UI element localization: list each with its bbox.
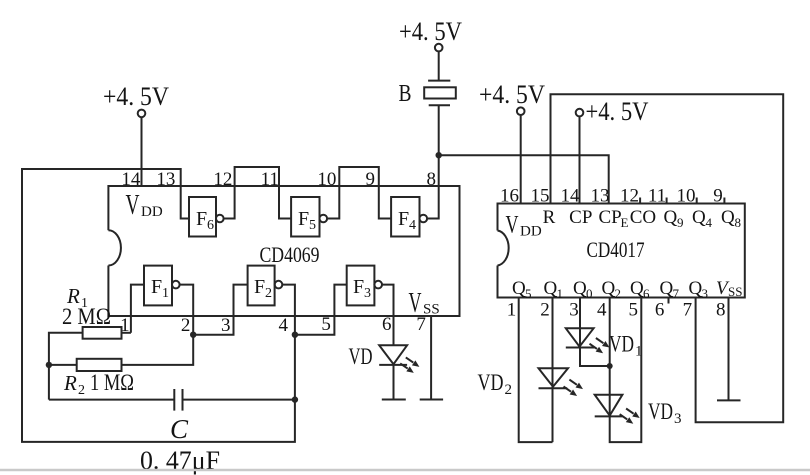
- wire C right: [183, 399, 295, 401]
- wire Q2 pin4 down through VD3: [610, 298, 642, 443]
- wire reset loop R pin15 to Q3 pin7: [551, 94, 784, 422]
- svg-text:V: V: [506, 211, 519, 238]
- svg-text:Q: Q: [664, 207, 678, 228]
- svg-text:5: 5: [629, 300, 639, 321]
- svg-text:12: 12: [213, 169, 232, 190]
- node buzzer junction: [436, 152, 442, 158]
- svg-text:6: 6: [207, 218, 214, 233]
- wire pin9 to F4 in: [379, 186, 391, 219]
- svg-text:11: 11: [261, 169, 279, 190]
- svg-text:14: 14: [561, 186, 581, 207]
- svg-text:3: 3: [569, 300, 579, 321]
- svg-text:16: 16: [500, 186, 519, 207]
- svg-text:5: 5: [321, 314, 331, 335]
- wire +4.5V to U2 pin16: [520, 115, 522, 204]
- wire pin7 to ground: [430, 316, 432, 400]
- svg-text:2: 2: [265, 286, 272, 301]
- svg-text:Q: Q: [573, 278, 587, 299]
- wire VD cathode to ground: [393, 365, 395, 400]
- wire terminal to buzzer: [438, 51, 440, 80]
- svg-text:10: 10: [317, 169, 336, 190]
- wire buzzer to junction: [438, 105, 440, 155]
- svg-text:7: 7: [416, 314, 426, 335]
- svg-text:VD: VD: [478, 370, 504, 395]
- svg-text:CO: CO: [630, 207, 656, 228]
- svg-text:B: B: [399, 81, 412, 107]
- inverter F3: [347, 266, 375, 306]
- svg-text:Q: Q: [544, 278, 558, 299]
- svg-text:9: 9: [713, 186, 723, 207]
- IC U1 notch: [108, 230, 121, 265]
- wire R1 right to pin1: [122, 332, 131, 334]
- ground (U1 VSS pin7): [420, 399, 443, 401]
- svg-text:+4. 5V: +4. 5V: [586, 97, 649, 126]
- svg-text:9: 9: [677, 215, 684, 230]
- power terminal +4.5V (U2 pin14): [576, 109, 584, 117]
- wire junction to U2 pin13 CPE: [439, 155, 609, 203]
- wire Q0 pin3 down through VD1: [580, 298, 610, 367]
- wire F1 out pin2 down: [180, 285, 194, 335]
- svg-text:15: 15: [531, 186, 550, 207]
- svg-text:9: 9: [365, 169, 375, 190]
- svg-text:F: F: [398, 208, 409, 230]
- svg-text:4: 4: [409, 218, 416, 233]
- wire VSS pin8 to ground: [728, 298, 730, 401]
- svg-text:Q: Q: [602, 278, 616, 299]
- wire F2 out to pin4: [282, 285, 295, 316]
- svg-text:VD: VD: [609, 332, 634, 357]
- ground (U2 VSS pin8): [717, 399, 741, 401]
- inverter F1: [144, 266, 172, 306]
- svg-text:F: F: [298, 208, 309, 230]
- svg-text:5: 5: [309, 218, 316, 233]
- svg-text:12: 12: [620, 186, 639, 207]
- svg-text:7: 7: [683, 300, 693, 321]
- svg-text:14: 14: [121, 169, 141, 190]
- svg-text:C: C: [170, 414, 189, 444]
- wire loop pin10 to pin9: [339, 167, 379, 186]
- svg-text:Q: Q: [660, 278, 674, 299]
- wire F1 in / pin1 down to R1: [131, 285, 144, 333]
- svg-text:+4. 5V: +4. 5V: [399, 17, 462, 46]
- separator line: [0, 469, 810, 472]
- wire pin2 to pin3 F2 in: [193, 285, 247, 335]
- wire F4 out pin8 up to buzzer junction: [427, 155, 439, 218]
- svg-text:Q: Q: [692, 207, 706, 228]
- node C right junction: [292, 396, 298, 402]
- svg-text:8: 8: [427, 169, 437, 190]
- svg-text:+4. 5V: +4. 5V: [479, 80, 545, 109]
- svg-text:V: V: [126, 190, 140, 221]
- wire pin4 to pin5 F3 in: [295, 285, 347, 335]
- svg-text:DD: DD: [141, 204, 163, 220]
- node VD1 cathode junction: [607, 363, 613, 369]
- wire C left: [49, 399, 174, 401]
- wire F5 out to pin10: [327, 186, 339, 219]
- capacitor C plates: [173, 389, 175, 411]
- wire pin11 to F5 in: [279, 186, 291, 219]
- node R2 left junction: [46, 362, 52, 368]
- svg-text:6: 6: [655, 300, 665, 321]
- wire R2 left: [49, 364, 77, 366]
- svg-text:4: 4: [278, 315, 288, 336]
- svg-text:F: F: [254, 276, 265, 298]
- svg-text:2: 2: [181, 315, 191, 336]
- IC U2 bottom pin tick 6: [668, 298, 670, 304]
- svg-text:8: 8: [735, 215, 742, 230]
- resistor R1 body: [83, 327, 122, 339]
- wire Q1 pin2 down through VD2: [552, 298, 554, 443]
- svg-text:2: 2: [540, 300, 550, 321]
- svg-text:VD: VD: [349, 344, 373, 369]
- svg-text:1: 1: [162, 286, 169, 301]
- buzzer B: [428, 80, 450, 82]
- svg-text:Q: Q: [689, 278, 703, 299]
- wire R1 left: [49, 333, 83, 400]
- inverter F4: [391, 197, 419, 237]
- svg-text:6: 6: [643, 286, 650, 301]
- svg-text:R: R: [543, 207, 556, 228]
- LED VD2: [539, 368, 569, 386]
- wire F6 out to pin12: [224, 186, 235, 219]
- wire Q5 pin1 down: [519, 298, 553, 443]
- LED VD1: [566, 328, 594, 346]
- resistor R2 body: [77, 359, 122, 371]
- svg-text:8: 8: [716, 300, 726, 321]
- svg-text:2: 2: [505, 382, 513, 398]
- svg-text:13: 13: [591, 186, 610, 207]
- inverter F6: [189, 197, 216, 237]
- svg-text:2 MΩ: 2 MΩ: [62, 304, 111, 329]
- svg-text:4: 4: [597, 300, 607, 321]
- LED VD: [379, 345, 407, 364]
- inverter F2: [248, 266, 275, 306]
- ground (LED VD): [382, 399, 406, 401]
- wire F3 out pin6 down to LED VD: [382, 285, 394, 346]
- svg-text:2: 2: [78, 383, 85, 398]
- wire +4.5V to pin14: [141, 117, 143, 186]
- svg-text:3: 3: [702, 286, 709, 301]
- svg-text:VD: VD: [648, 399, 673, 424]
- inverter F5: [291, 197, 319, 237]
- wire loop pin12 to pin11: [235, 167, 279, 186]
- svg-text:F: F: [353, 276, 364, 298]
- svg-text:E: E: [621, 215, 629, 230]
- svg-text:+4. 5V: +4. 5V: [103, 82, 169, 111]
- svg-text:5: 5: [525, 286, 532, 301]
- svg-text:Q: Q: [512, 278, 526, 299]
- svg-text:6: 6: [382, 314, 392, 335]
- IC U2 top pin ticks 12 11 10 9: [639, 198, 641, 204]
- svg-text:F: F: [196, 208, 207, 230]
- svg-text:Q: Q: [721, 207, 735, 228]
- svg-text:DD: DD: [520, 223, 542, 239]
- svg-text:Q: Q: [630, 278, 644, 299]
- svg-text:F: F: [151, 276, 162, 298]
- svg-text:0: 0: [586, 286, 593, 301]
- wire R2 right up to pin2 node: [122, 335, 194, 365]
- svg-text:2: 2: [615, 286, 622, 301]
- svg-text:3: 3: [674, 411, 682, 427]
- svg-text:4: 4: [706, 215, 713, 230]
- svg-text:CP: CP: [599, 207, 622, 228]
- node pin2 junction: [190, 332, 196, 338]
- svg-text:3: 3: [221, 315, 231, 336]
- svg-text:1: 1: [557, 286, 564, 301]
- svg-text:R: R: [63, 371, 77, 395]
- svg-text:1: 1: [507, 300, 517, 321]
- svg-text:3: 3: [364, 286, 371, 301]
- IC U1 CD4069 outline: [108, 186, 459, 316]
- wire feedback loop (F2 out pin4 -> bottom -> left -> top -> F6 in pin13): [22, 169, 295, 442]
- svg-text:11: 11: [648, 186, 666, 207]
- svg-text:SS: SS: [728, 284, 742, 299]
- svg-text:CD4069: CD4069: [260, 242, 320, 267]
- svg-text:13: 13: [156, 169, 175, 190]
- svg-text:CP: CP: [569, 207, 592, 228]
- svg-text:CD4017: CD4017: [587, 237, 645, 262]
- svg-text:10: 10: [677, 186, 696, 207]
- IC U2 CD4017 outline: [498, 204, 745, 298]
- svg-text:1 MΩ: 1 MΩ: [90, 370, 134, 395]
- svg-text:7: 7: [673, 286, 680, 301]
- wire +4.5V to U2 pin14: [579, 116, 581, 203]
- LED VD3: [595, 395, 623, 416]
- node pin4 junction: [292, 332, 298, 338]
- IC U2 notch: [498, 231, 509, 266]
